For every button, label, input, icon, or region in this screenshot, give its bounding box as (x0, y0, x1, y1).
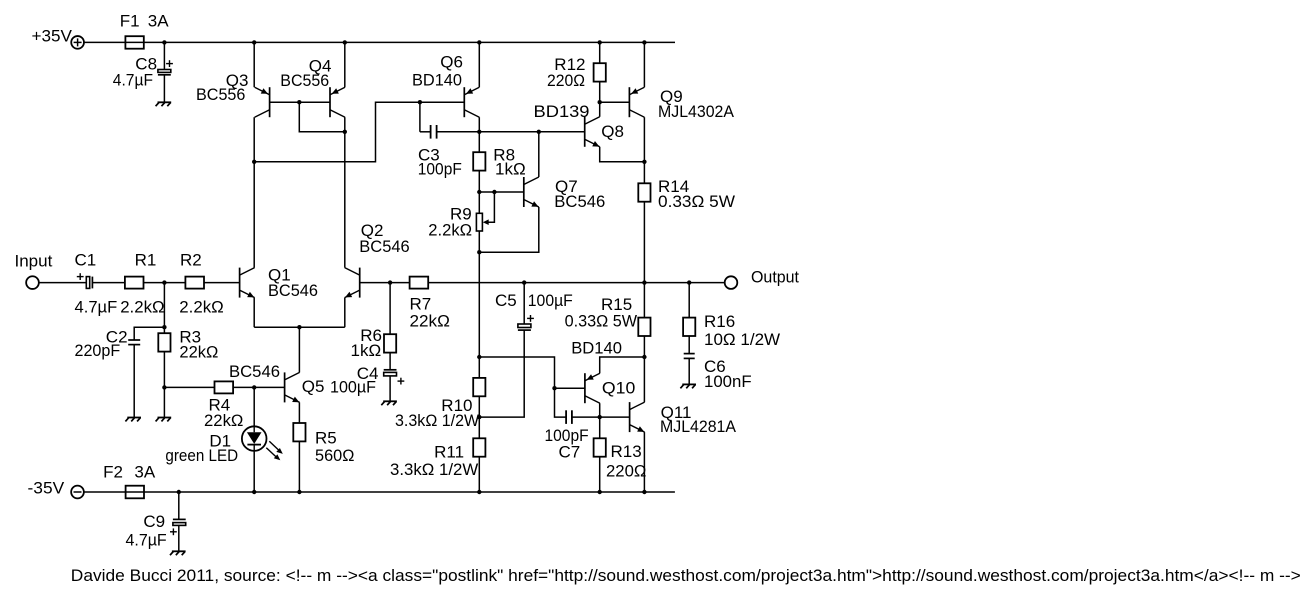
wire Q11 base (600, 416, 630, 418)
wire R5 bottom (298, 441, 300, 492)
transistor Q4 (329, 87, 331, 117)
ground C8 (158, 101, 172, 103)
resistor R10 (473, 378, 485, 396)
wire LTP tail (254, 326, 345, 328)
wire Q4 collector lead (344, 117, 346, 132)
wire R6-C4 (389, 353, 391, 370)
svg-text:220Ω: 220Ω (606, 462, 646, 481)
resistor R2 (185, 277, 204, 289)
svg-text:100pF: 100pF (418, 160, 462, 179)
svg-text:3A: 3A (134, 463, 155, 482)
wire base tie Q3-Q4 (270, 101, 330, 103)
wire D1 cathode (253, 451, 255, 492)
wire VAS node (479, 131, 539, 133)
wire R4-Q5 (233, 386, 285, 388)
output terminal (725, 276, 738, 289)
wire input (39, 282, 86, 284)
svg-text:100µF: 100µF (330, 378, 376, 397)
wire R11 top (478, 417, 480, 438)
wire C5 top (523, 283, 525, 324)
wire Q1 emitter lead (253, 298, 255, 328)
input terminal (26, 276, 39, 289)
transistor Q3 (269, 87, 271, 117)
wire output rail (428, 282, 725, 284)
wire Q10 emitter lead (600, 357, 645, 373)
ground C4 (383, 400, 397, 402)
wire Q7 base (479, 191, 524, 193)
wire D1 anode (253, 387, 255, 426)
svg-text:R13: R13 (611, 442, 642, 461)
junction dots (162, 40, 166, 44)
wire R8 top (478, 132, 480, 152)
svg-text:BC556: BC556 (280, 71, 329, 90)
resistor R14 (638, 183, 650, 201)
wire C2 branch (134, 327, 164, 340)
capacitor C8 (158, 70, 171, 73)
svg-text:Davide Bucci 2011, source: <!-: Davide Bucci 2011, source: <!-- m --><a … (71, 566, 1301, 585)
svg-text:BD140: BD140 (571, 339, 622, 358)
svg-text:-35V: -35V (28, 478, 65, 497)
wire Q9 emitter lead (643, 42, 645, 87)
wire R14 bottom (643, 202, 645, 283)
wire +35V rail (84, 41, 675, 43)
svg-text:3A: 3A (148, 12, 169, 31)
transistor Q7 (523, 177, 525, 207)
svg-text:1kΩ: 1kΩ (351, 341, 382, 360)
+35V terminal (71, 36, 84, 49)
transistor Q9 (628, 87, 630, 117)
resistor R12 (594, 63, 606, 81)
wire C9 bottom (178, 525, 180, 551)
wire VAS emitter column (478, 252, 480, 357)
svg-text:3.3kΩ 1/2W: 3.3kΩ 1/2W (390, 460, 478, 479)
wire R2-Q1 (204, 282, 240, 284)
wire C4 bottom (389, 376, 391, 401)
wire R10-R11 (478, 396, 480, 417)
svg-text:22kΩ: 22kΩ (410, 311, 450, 330)
wire R15 top (643, 283, 645, 318)
wire -35V rail (84, 491, 675, 493)
wire R3 ground stub (163, 387, 165, 417)
wire Q2 emitter lead (344, 298, 346, 328)
ground C2 (127, 417, 141, 419)
wire R12 bottom (599, 82, 601, 103)
wire R9 bottom (478, 231, 480, 252)
wire C7 right (572, 416, 600, 418)
wire C9 top (178, 492, 180, 519)
svg-text:R5: R5 (315, 428, 337, 447)
svg-text:R2: R2 (180, 251, 202, 270)
svg-text:1kΩ: 1kΩ (495, 160, 526, 179)
wire C2 bottom (133, 345, 135, 418)
wire R15 bottom (643, 336, 645, 357)
svg-text:BC546: BC546 (359, 237, 409, 256)
svg-text:22kΩ: 22kΩ (179, 342, 218, 361)
transistor Q11 (629, 402, 631, 432)
wire Q1 collector (253, 162, 255, 268)
resistor R15 (638, 318, 650, 336)
resistor R1 (125, 277, 144, 289)
svg-text:Input: Input (15, 252, 53, 271)
wire Q3 collector lead (253, 117, 255, 162)
svg-text:2.2kΩ: 2.2kΩ (428, 221, 472, 240)
svg-text:4.7µF: 4.7µF (126, 531, 167, 550)
svg-text:BD140: BD140 (412, 71, 462, 90)
wire R13 bottom (599, 457, 601, 492)
svg-text:0.33Ω 5W: 0.33Ω 5W (565, 311, 638, 330)
svg-text:BD139: BD139 (534, 102, 590, 121)
capacitor C7 (565, 410, 567, 424)
fuse F1 (125, 36, 143, 49)
svg-text:MJL4281A: MJL4281A (660, 417, 737, 436)
svg-text:10Ω 1/2W: 10Ω 1/2W (704, 330, 780, 349)
wire R3 top (163, 327, 165, 333)
wire Q7 collector lead (538, 132, 540, 177)
wire Q2 base (360, 282, 390, 284)
D1 emission arrows (269, 441, 280, 451)
svg-text:Q5: Q5 (302, 377, 325, 396)
capacitor C2 (128, 339, 140, 341)
transistor Q10 (584, 373, 586, 403)
svg-text:+35V: +35V (32, 27, 73, 46)
resistor R13 (594, 438, 606, 456)
resistor R5 (293, 423, 305, 441)
wire R14 top (643, 162, 645, 184)
wire Q4 collector to Q2 (344, 132, 346, 268)
transistor Q5 (284, 372, 286, 402)
wire R11 bottom (478, 457, 480, 492)
resistor R4 (215, 381, 234, 393)
wire C5 bottom (479, 330, 524, 417)
capacitor C5 (518, 324, 531, 328)
wire Q6 emitter lead (478, 42, 480, 87)
wire C6 bottom (688, 358, 690, 384)
svg-text:green LED: green LED (165, 446, 238, 465)
svg-text:C7: C7 (559, 443, 581, 462)
wire Q5 collector lead (298, 327, 300, 372)
svg-text:Q10: Q10 (602, 379, 635, 398)
wire Q8 base (539, 131, 585, 133)
resistor R6 (384, 334, 396, 352)
wire Q9 collector lead (643, 117, 645, 162)
wire C8 bottom (163, 75, 165, 103)
capacitor C9 (173, 518, 186, 520)
LED D1 (242, 426, 267, 451)
wire mirror output (254, 102, 420, 162)
wire Q4 emitter lead (344, 42, 346, 87)
wire R9 top (478, 192, 480, 213)
wire Q6 base (420, 101, 464, 103)
svg-text:220Ω: 220Ω (547, 71, 585, 90)
wire VAS to Q10 (479, 357, 554, 388)
svg-text:R1: R1 (135, 251, 157, 270)
capacitor C3 (420, 131, 431, 133)
wire R16-C6 (688, 336, 690, 354)
svg-text:220pF: 220pF (75, 341, 121, 360)
wire Q11 emitter lead (643, 432, 645, 492)
wire R9 wiper (488, 192, 495, 222)
svg-text:3.3kΩ 1/2W: 3.3kΩ 1/2W (395, 411, 479, 430)
svg-text:100µF: 100µF (528, 291, 573, 310)
svg-text:4.7µF: 4.7µF (75, 297, 118, 316)
fuse F2 (126, 486, 144, 499)
svg-text:0.33Ω 5W: 0.33Ω 5W (658, 192, 735, 211)
svg-text:BC546: BC546 (229, 362, 280, 381)
svg-text:2.2kΩ: 2.2kΩ (179, 297, 224, 316)
trimmer R9 (476, 213, 482, 231)
svg-text:F2: F2 (103, 463, 123, 482)
svg-text:BC556: BC556 (196, 85, 245, 104)
transistor Q6 (463, 87, 465, 117)
wire Q5 emitter lead (298, 402, 300, 423)
svg-text:22kΩ: 22kΩ (204, 411, 243, 430)
wire Q8 collector lead (599, 102, 601, 117)
wire R1-R2 (144, 282, 186, 284)
svg-text:Q8: Q8 (601, 122, 624, 141)
svg-text:C9: C9 (143, 512, 165, 531)
wire R3 bottom (163, 352, 165, 388)
wire C8 top (163, 42, 165, 69)
svg-text:R16: R16 (704, 312, 735, 331)
resistor R8 (473, 152, 485, 170)
wire R7 left (390, 282, 410, 284)
wire Q6 collector lead (478, 117, 480, 132)
wire Q3 emitter lead (253, 42, 255, 87)
wire R16 top (688, 283, 690, 318)
svg-text:2.2kΩ: 2.2kΩ (120, 297, 164, 316)
resistor R11 (473, 438, 485, 456)
svg-text:4.7µF: 4.7µF (113, 71, 153, 90)
transistor Q2 (359, 268, 361, 298)
resistor R3 (158, 333, 170, 351)
-35V terminal (71, 486, 84, 499)
wire R8 bottom (478, 171, 480, 192)
resistor R16 (683, 318, 695, 336)
wire C7 left (555, 388, 567, 417)
wire Q10 base (555, 387, 585, 389)
wire R13 top (599, 417, 601, 438)
svg-text:MJL4302A: MJL4302A (658, 102, 735, 121)
wire R1-R3 column (163, 283, 165, 328)
capacitor C1 (86, 277, 89, 289)
wire Q2 collector lead (344, 267, 346, 269)
ground R3 (158, 417, 172, 419)
wire Q8 emitter lead (600, 147, 645, 162)
svg-text:F1: F1 (120, 12, 140, 31)
svg-text:C1: C1 (75, 251, 97, 270)
R9 wiper arrow (483, 219, 489, 225)
transistor Q8 (584, 117, 586, 147)
wire R12 top (599, 42, 601, 63)
ground C6 (682, 383, 696, 385)
svg-text:Q6: Q6 (440, 53, 463, 72)
svg-text:560Ω: 560Ω (315, 446, 354, 465)
wire base-collector tie (299, 102, 345, 132)
svg-text:R11: R11 (434, 443, 464, 462)
svg-text:BC546: BC546 (268, 281, 318, 300)
ground C9 (172, 550, 186, 552)
transistor Q1 (239, 268, 241, 298)
wire Q9 base (600, 101, 630, 103)
svg-text:100nF: 100nF (704, 372, 752, 391)
wire Q11 collector lead (643, 357, 645, 402)
wire Q10 collector lead (599, 403, 601, 417)
svg-text:C5: C5 (495, 291, 517, 310)
wire R10 top (478, 357, 480, 378)
resistor R7 (410, 277, 429, 289)
wire C1-R1 (92, 282, 125, 284)
svg-text:BC546: BC546 (554, 192, 605, 211)
capacitor C6 (684, 353, 695, 355)
wire R6 top (389, 283, 391, 335)
svg-text:Output: Output (751, 268, 799, 287)
wire C3 left (419, 102, 421, 132)
wire Q7 emitter lead (479, 207, 539, 252)
capacitor C4 (384, 369, 397, 371)
wire R4 left (164, 386, 214, 388)
